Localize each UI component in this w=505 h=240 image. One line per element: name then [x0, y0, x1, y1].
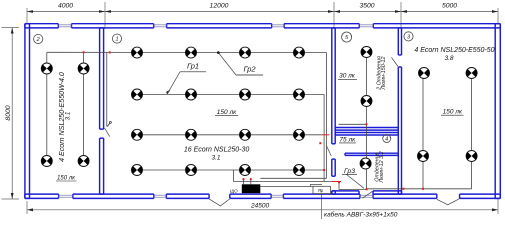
junction dot Gr2 [217, 51, 220, 54]
window [154, 25, 167, 27]
wire room2 left drop [46, 52, 48, 161]
corridor top wall segment [335, 133, 398, 136]
junction [338, 181, 340, 183]
dimension arrows at 27 [27, 10, 33, 13]
window [272, 25, 284, 27]
svg-text:150 лк: 150 лк [443, 109, 463, 116]
junction [250, 178, 252, 180]
dimension arrows at 334 [328, 10, 334, 13]
door leaf wall A [105, 128, 110, 136]
svg-text:ЩО: ЩО [230, 188, 238, 193]
luminaire room2 d [78, 156, 89, 167]
outer right wall segment [495, 24, 500, 199]
svg-text:4 Ecorn NSL250-E550-50: 4 Ecorn NSL250-E550-50 [414, 47, 494, 54]
svg-text:75 лк: 75 лк [339, 136, 356, 143]
luminaire room4 [360, 158, 371, 169]
leader Gr1 [167, 72, 180, 94]
outer bottom wall segment [73, 194, 154, 198]
junction [366, 188, 368, 190]
outer left wall segment [25, 24, 30, 199]
svg-text:3.1: 3.1 [211, 155, 220, 162]
door leaf vestibule [363, 191, 373, 198]
wire room3 right riser [471, 73, 473, 189]
luminaire room2 a [41, 63, 52, 74]
svg-text:кабель АВВГ-3х95+1х50: кабель АВВГ-3х95+1х50 [324, 210, 398, 218]
room tag 2 [34, 34, 43, 43]
wire panel to riser 1 [260, 177, 326, 179]
svg-text:16 Ecorn NSL250-30: 16 Ecorn NSL250-30 [184, 147, 249, 154]
svg-text:150 лк: 150 лк [57, 175, 76, 181]
outer top wall segment [373, 24, 500, 28]
luminaire room1 r3c2 [185, 129, 196, 140]
svg-text:Яр: Яр [317, 188, 324, 193]
luminaire room1 r4c1 [131, 165, 142, 176]
luminaire room1 r4c4 [293, 165, 304, 176]
wire group1 row1 (room2 + room1 top) [47, 51, 327, 53]
room tag 5 [342, 32, 352, 42]
outer top wall segment [167, 24, 272, 28]
junction [321, 189, 323, 191]
luminaire room3 d [466, 151, 477, 162]
interior wall A (room2|room1) segment [100, 28, 104, 129]
junction [403, 188, 405, 190]
distribution panel ЩО (black box) [242, 184, 260, 193]
outer bottom wall segment [230, 194, 271, 198]
luminaire room1 r1c2 [185, 47, 196, 58]
luminaire room1 r2c1 [131, 89, 142, 100]
wire room5 bottom branch [339, 123, 367, 125]
luminaire room2 c [41, 156, 52, 167]
luminaire room1 r2c4 [293, 89, 304, 100]
dimension arrows at 498 [492, 10, 498, 13]
door swing V (bottom right door) [437, 199, 460, 205]
luminaire room1 r2c2 [185, 89, 196, 100]
luminaire room1 r3c1 [131, 129, 142, 140]
junction box outline step [311, 184, 323, 186]
luminaire room1 r1c1 [131, 47, 142, 58]
wire room1 right riser Gr1 [326, 53, 328, 179]
window [360, 195, 373, 197]
wire room2 right drop [83, 52, 85, 161]
outer bottom wall segment [166, 194, 209, 198]
vestibule wall segment [373, 191, 402, 194]
luminaire room3 c [417, 151, 428, 162]
door leaf wall C [392, 58, 399, 67]
switch at room1 door [107, 123, 110, 127]
junction [366, 123, 368, 125]
leader Gr3 [347, 175, 365, 189]
svg-text:24500: 24500 [250, 203, 269, 210]
dimension arrows at 105 [99, 10, 105, 13]
door leaf wall B [326, 145, 331, 156]
door swing V (bottom left door) [209, 199, 230, 206]
svg-text:4: 4 [385, 137, 388, 143]
junction [109, 51, 111, 53]
luminaire room1 r4c2 [185, 165, 196, 176]
leader Gr1 arrowhead [166, 90, 171, 95]
dimension tick x=105 [104, 2, 106, 29]
outer bottom wall segment [25, 194, 59, 198]
junction [319, 142, 321, 144]
room tag 1 [112, 34, 121, 43]
leader Gr2 [218, 53, 236, 75]
svg-text:3.8: 3.8 [444, 55, 453, 62]
svg-text:5000: 5000 [442, 3, 457, 10]
luminaire room3 a [418, 68, 429, 79]
wire panel stub 1 [243, 178, 245, 184]
dimension tick x=334 [333, 2, 335, 29]
luminaire room1 r3c3 [239, 129, 250, 140]
left dim tick top [2, 27, 20, 29]
luminaire room3 b [466, 68, 477, 79]
dimension tick x=27 [26, 8, 28, 24]
bottom dim arrows [27, 208, 33, 211]
red wire segment through wall B [332, 181, 341, 183]
interior wall C (corridor|room3) segment [398, 67, 401, 194]
wire panel to riser 2 and Gr3 feed [234, 181, 340, 183]
wire room1 row3 [136, 134, 321, 136]
interior wall C (corridor|room3) segment [398, 28, 401, 55]
wire room1 row4 [136, 169, 324, 171]
room tag 3 [404, 32, 413, 41]
junction [323, 169, 325, 171]
wire row4 tap to panel [233, 170, 235, 182]
svg-text:Люмн-12 3.2: Люмн-12 3.2 [379, 151, 385, 183]
wire lobby to room3 bottom run [339, 188, 472, 191]
svg-text:Гр1: Гр1 [187, 62, 199, 71]
outer bottom wall segment [283, 194, 360, 198]
window [154, 195, 166, 197]
outer top wall segment [72, 24, 154, 28]
svg-text:Гр2: Гр2 [243, 64, 256, 73]
dimension tick x=401 [400, 2, 402, 29]
wire room1 switch drop [106, 52, 108, 126]
luminaire room1 r1c3 [239, 47, 250, 58]
svg-text:30 лк: 30 лк [339, 73, 356, 80]
luminaire room5 bottom [361, 96, 372, 107]
wire room1 row2 [136, 94, 324, 96]
wire room3 left riser [422, 73, 424, 189]
svg-text:4000: 4000 [58, 3, 73, 10]
luminaire room1 r1c4 [293, 47, 304, 58]
svg-text:3.1: 3.1 [64, 112, 71, 121]
room tag 4 [383, 135, 391, 143]
wire panel stub 2 [250, 178, 252, 184]
left dim arrows [11, 28, 14, 34]
junction [243, 178, 245, 180]
luminaire room1 r2c3 [239, 89, 250, 100]
interior wall B (room1|corridor) segment [332, 159, 335, 176]
wire room1 right riser Gr2 [323, 95, 325, 182]
top dimension line [27, 11, 498, 13]
outer top wall segment [25, 24, 58, 28]
interior wall A (room2|room1) segment [100, 138, 104, 194]
svg-text:1: 1 [115, 37, 118, 43]
svg-text:150 лк: 150 лк [217, 109, 237, 116]
vestibule wall segment [332, 191, 359, 194]
luminaire room1 r3c4 [293, 129, 304, 140]
outer top wall segment [284, 24, 359, 28]
interior wall B (room1|corridor) segment [332, 28, 335, 144]
window [59, 195, 73, 197]
outer bottom wall segment [460, 194, 501, 198]
cable leader line [321, 194, 323, 219]
junction [83, 51, 85, 53]
svg-text:3500: 3500 [359, 3, 374, 10]
left dim tick bottom [2, 198, 20, 200]
svg-text:12000: 12000 [210, 3, 229, 10]
luminaire room5 top [361, 47, 372, 58]
window [58, 25, 71, 27]
wire panel to junction box [260, 186, 313, 188]
svg-text:Люмн-150-12: Люмн-150-12 [381, 57, 387, 91]
svg-text:Гр3: Гр3 [344, 168, 355, 175]
wire room5/room4 riser [366, 52, 368, 190]
junction [422, 188, 424, 190]
window [271, 195, 283, 197]
outer bottom wall segment [373, 194, 437, 198]
bottom dim tick left [26, 201, 28, 214]
dimension tick x=498 [497, 8, 499, 24]
junction box ЯР [313, 186, 330, 193]
window [359, 25, 373, 27]
svg-text:8000: 8000 [5, 105, 12, 120]
bottom dim tick right [497, 199, 499, 214]
luminaire room2 b [78, 63, 89, 74]
bottom dimension line [27, 209, 498, 211]
left dimension line [11, 28, 13, 200]
room4 top wall segment [345, 153, 398, 155]
room5 bottom wall segment [335, 128, 398, 131]
svg-text:2: 2 [36, 37, 40, 43]
wire Gr3 feed drop [338, 182, 340, 190]
dimension arrows at 401 [395, 10, 401, 13]
luminaire room1 r4c3 [239, 165, 250, 176]
interior wall B (room1|corridor) segment [332, 191, 335, 194]
red wire segment row3 end [321, 134, 330, 136]
